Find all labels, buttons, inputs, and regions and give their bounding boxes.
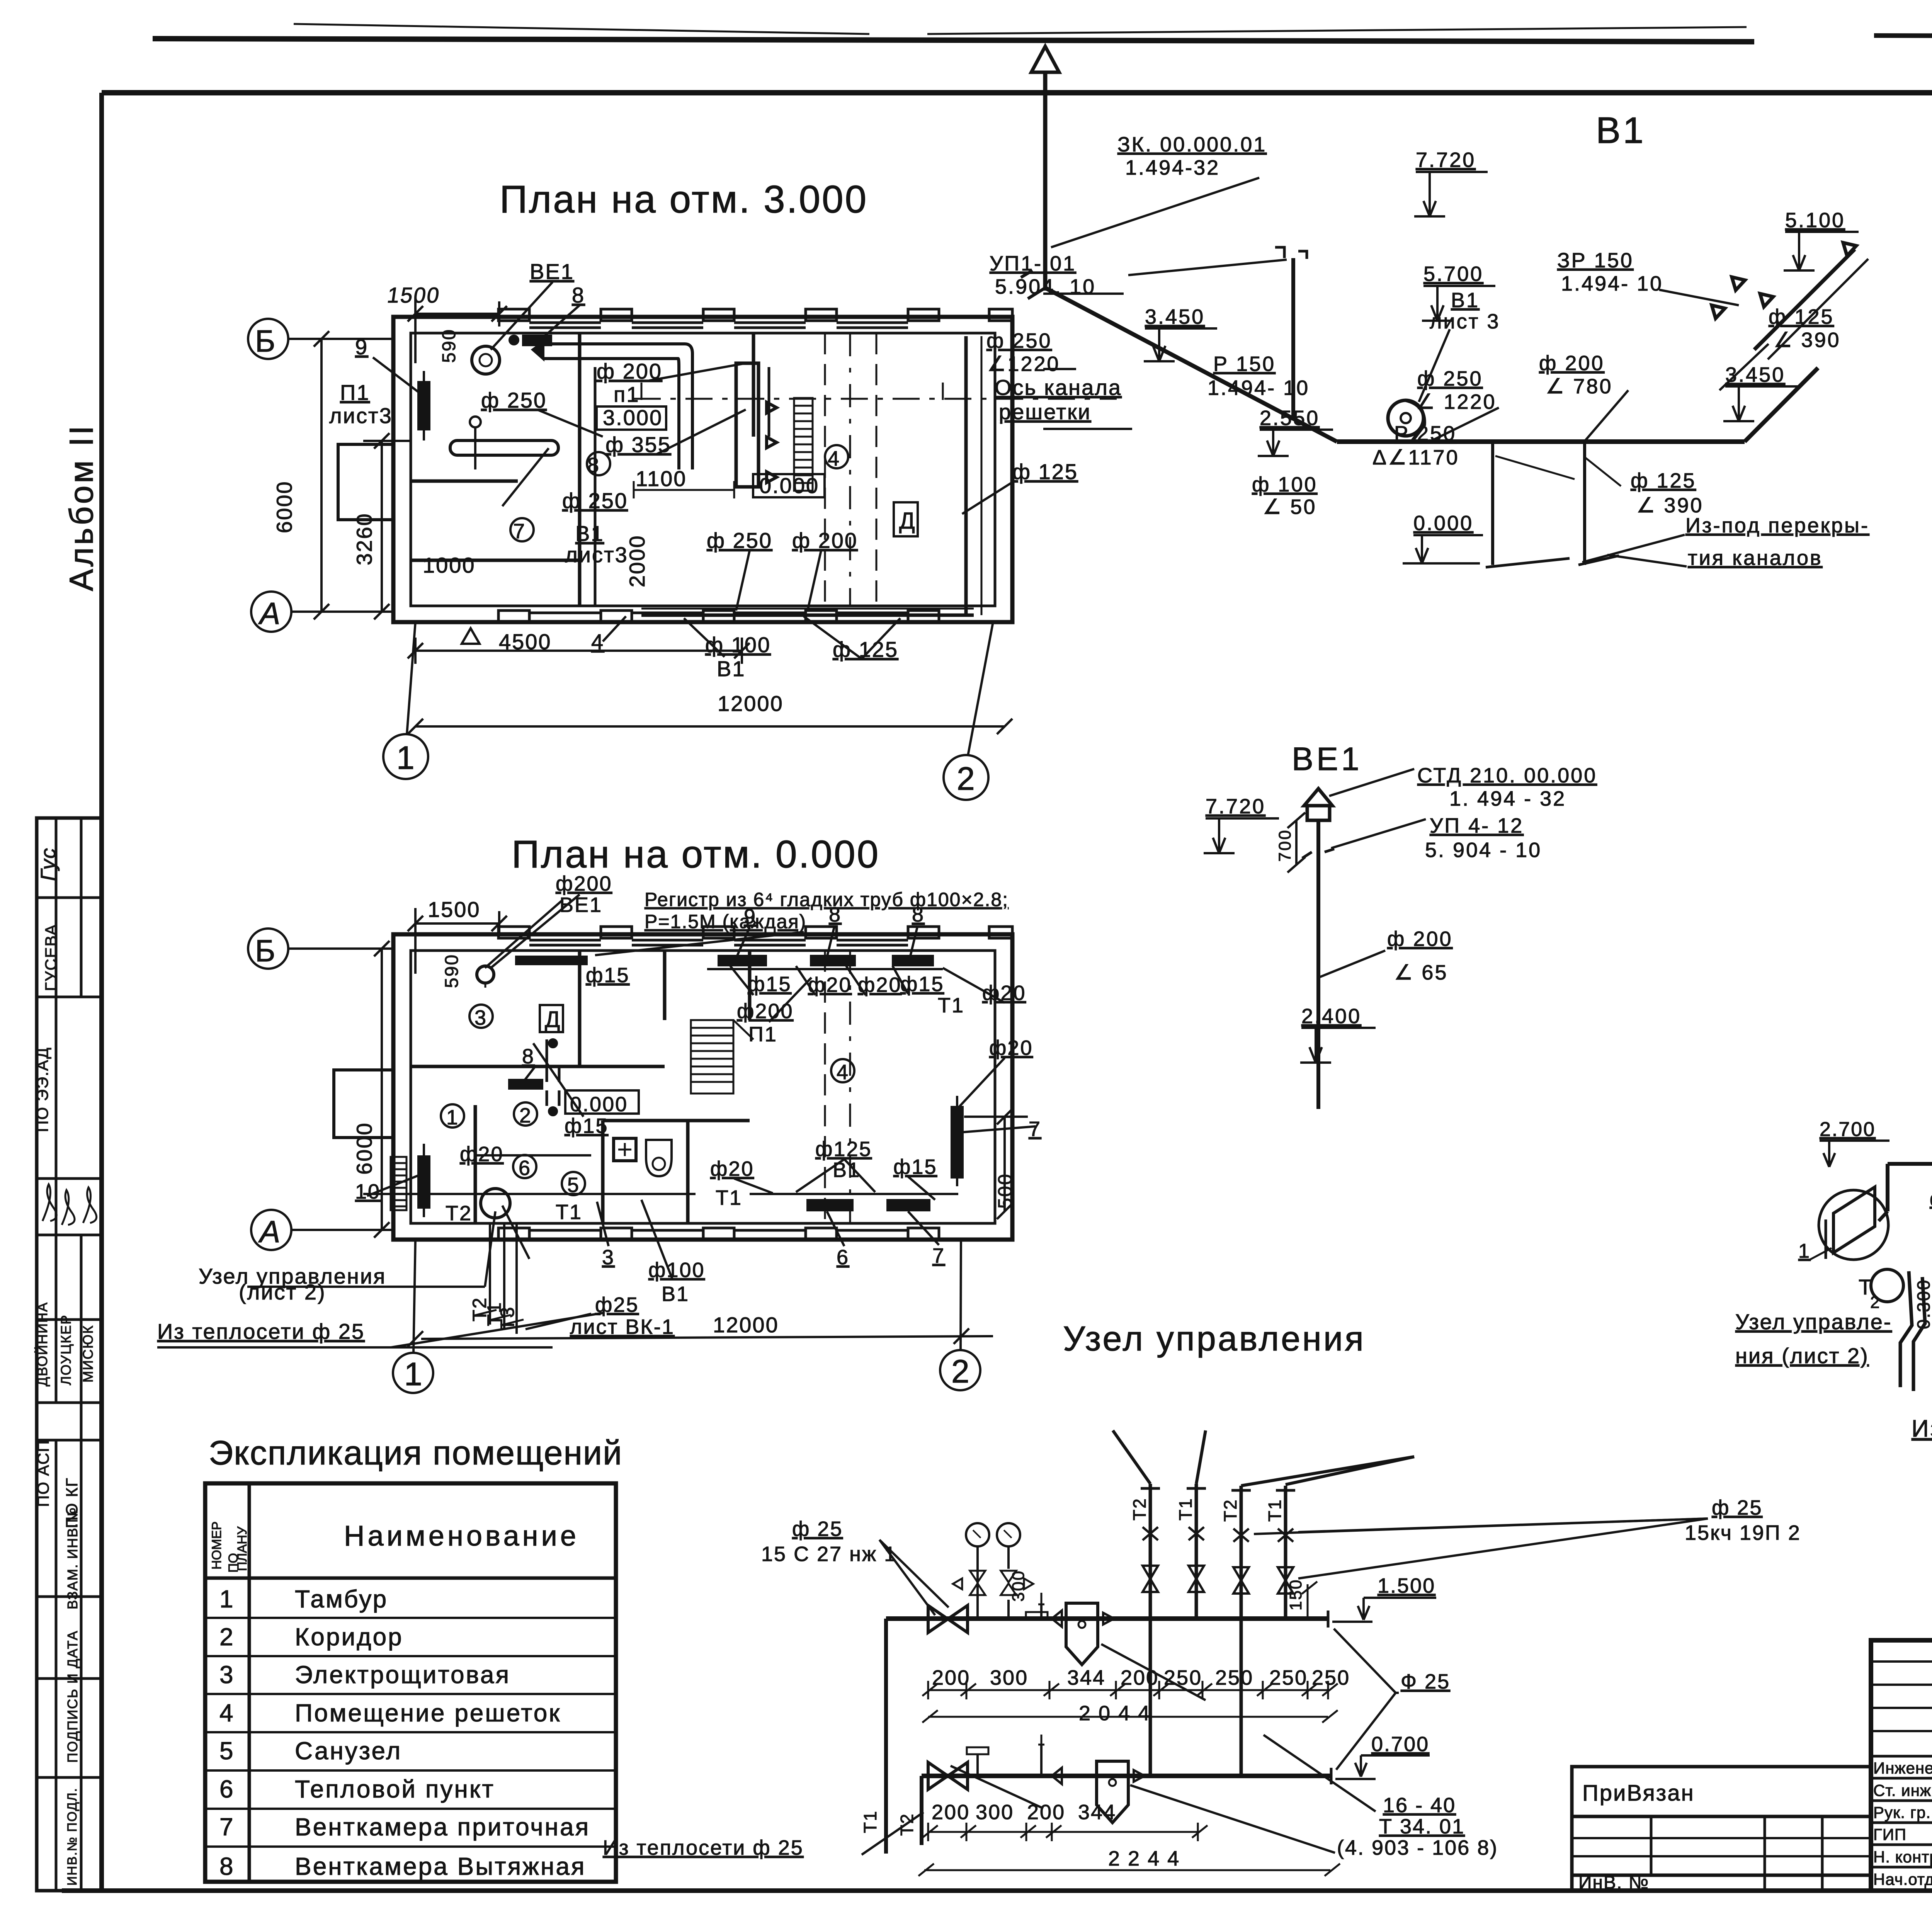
labels [603, 1496, 1801, 1870]
connecting risers between pipes [1149, 1619, 1152, 1776]
svg-text:3.000: 3.000 [603, 405, 663, 430]
svg-text:П1: П1 [748, 1023, 777, 1046]
svg-text:ф 200: ф 200 [1387, 927, 1453, 951]
svg-text:8: 8 [219, 1852, 235, 1880]
svg-text:СТД 210. 00.000: СТД 210. 00.000 [1417, 764, 1597, 787]
B1 axonometric schematic [986, 46, 1869, 570]
grid B [248, 319, 288, 359]
svg-text:1.500: 1.500 [1378, 1574, 1435, 1597]
svg-text:(4. 903 - 106 8): (4. 903 - 106 8) [1337, 1836, 1498, 1859]
svg-text:3260: 3260 [352, 512, 376, 565]
BE1 schematic [1204, 741, 1597, 1109]
upper diagonal duct 3P150 [1754, 249, 1855, 350]
svg-text:ГУСЕВА: ГУСЕВА [42, 924, 60, 991]
Ф25 fan leaders [1334, 1629, 1396, 1693]
dim 4500 [415, 650, 742, 652]
svg-text:ф 250: ф 250 [1417, 367, 1483, 390]
dirt trap 2 [1097, 1761, 1128, 1823]
stairs [691, 1020, 753, 1094]
porch left [334, 1070, 393, 1138]
TITLE BLOCK [1572, 1640, 1932, 1932]
leaders to labels [1329, 769, 1414, 796]
axis 1 [407, 622, 415, 734]
svg-text:Из-под перекры-: Из-под перекры- [1685, 514, 1869, 537]
svg-text:ф15: ф15 [748, 973, 792, 996]
svg-text:ДВОЙНИНА: ДВОЙНИНА [34, 1302, 50, 1386]
svg-text:МИСЮК: МИСЮК [80, 1325, 96, 1383]
0.000 [1403, 535, 1483, 563]
labels [1798, 891, 1932, 1379]
svg-text:Рук. гр.: Рук. гр. [1873, 1803, 1931, 1821]
svg-text:2 0 4 4: 2 0 4 4 [1079, 1702, 1151, 1725]
svg-text:Ст. инж.: Ст. инж. [1873, 1781, 1932, 1799]
leaders [247, 895, 1036, 1329]
svg-text:3.450: 3.450 [1145, 305, 1205, 328]
right vertical radiator [952, 1107, 962, 1177]
deflector [1304, 789, 1332, 806]
svg-text:∠ 390: ∠ 390 [1774, 328, 1841, 352]
svg-text:200: 200 [1121, 1666, 1159, 1689]
torn top scan edge lines [153, 39, 1754, 42]
outer of main title block [1871, 1640, 1932, 1891]
3.450 left [1144, 328, 1217, 361]
svg-text:2: 2 [519, 1104, 531, 1127]
sheet frame bottom [62, 1888, 1932, 1893]
big circle 1 with slanted panel [1819, 1190, 1888, 1260]
svg-text:В1: В1 [662, 1282, 689, 1306]
outer wall [393, 317, 1012, 622]
svg-text:Т2: Т2 [1220, 1498, 1240, 1522]
svg-text:2000: 2000 [625, 534, 649, 587]
svg-text:344: 344 [1067, 1666, 1105, 1689]
svg-text:200: 200 [1027, 1801, 1065, 1824]
svg-text:Венткамера приточная: Венткамера приточная [295, 1813, 590, 1841]
7.720 [1416, 171, 1488, 173]
svg-text:ф 125: ф 125 [1012, 459, 1078, 484]
svg-text:1.494- 10: 1.494- 10 [1207, 376, 1310, 400]
vertical exhaust shaft [1043, 72, 1048, 288]
svg-text:Т2: Т2 [446, 1202, 472, 1225]
svg-text:ф15: ф15 [893, 1155, 937, 1179]
svg-text:Инженер: Инженер [1873, 1759, 1932, 1777]
svg-text:тия каналов: тия каналов [1688, 546, 1823, 570]
svg-text:15 С 27 нж 1: 15 С 27 нж 1 [761, 1543, 897, 1566]
svg-text:В1: В1 [1451, 289, 1480, 312]
heating pipes T1 horizontal [363, 1193, 696, 1195]
svg-text:Альбом II: Альбом II [63, 423, 100, 591]
svg-text:∠ 50: ∠ 50 [1263, 495, 1316, 519]
bottom duct run [641, 614, 974, 617]
svg-text:ВЕ1: ВЕ1 [1292, 741, 1362, 777]
dim 2244 [924, 1869, 1330, 1871]
internal walls [578, 951, 582, 1066]
dim 1500 top [415, 313, 499, 315]
riser tees [1141, 1487, 1160, 1490]
UP1 unit vertical pipe [1291, 258, 1295, 420]
svg-text:250: 250 [1312, 1666, 1350, 1689]
svg-text:4: 4 [837, 1061, 848, 1084]
svg-text:ф200: ф200 [737, 1000, 794, 1023]
axis 2 [968, 622, 993, 755]
svg-text:2.400: 2.400 [1301, 1005, 1361, 1028]
leaders [1808, 951, 1932, 1353]
700 vertical dim [1295, 820, 1298, 865]
svg-text:ф 200: ф 200 [1539, 352, 1605, 375]
flow triangles [1732, 277, 1745, 290]
svg-text:7: 7 [1029, 1117, 1041, 1141]
signatures band [43, 1184, 97, 1225]
boxes [441, 1005, 854, 1195]
svg-text:ф200: ф200 [556, 872, 612, 895]
svg-text:8: 8 [829, 903, 842, 926]
svg-text:лист3: лист3 [329, 403, 393, 428]
radiator bar room2 [510, 1080, 542, 1088]
svg-text:ф 250: ф 250 [481, 388, 547, 412]
svg-text:1: 1 [446, 1106, 458, 1129]
svg-text:Т2: Т2 [1129, 1497, 1150, 1520]
big vertical duct f355 [736, 363, 759, 487]
svg-text:4: 4 [219, 1699, 235, 1727]
dirt trap 1 [1066, 1603, 1098, 1665]
svg-text:5: 5 [567, 1173, 579, 1197]
svg-text:Т 34. 01: Т 34. 01 [1379, 1815, 1465, 1838]
callouts [355, 872, 1041, 1338]
svg-text:250: 250 [1269, 1666, 1308, 1689]
svg-text:Т2: Т2 [897, 1813, 917, 1836]
svg-text:7: 7 [219, 1813, 235, 1841]
svg-text:∠1220: ∠1220 [987, 352, 1060, 376]
svg-text:8: 8 [912, 903, 925, 926]
riser crosses [1143, 1527, 1158, 1540]
svg-text:6: 6 [837, 1246, 849, 1269]
svg-text:Р 150: Р 150 [1213, 352, 1276, 376]
svg-text:лист3: лист3 [565, 543, 628, 567]
svg-text:2: 2 [219, 1623, 235, 1651]
drop lines to basement [1491, 442, 1494, 565]
svg-text:Нач.отд.: Нач.отд. [1873, 1870, 1932, 1888]
svg-text:ф 125: ф 125 [1631, 469, 1696, 492]
svg-text:ПЛАНУ: ПЛАНУ [235, 1526, 250, 1571]
grill hatch [794, 398, 813, 491]
svg-text:1: 1 [396, 740, 415, 776]
2.400 [1300, 1028, 1376, 1063]
svg-text:12000: 12000 [713, 1313, 779, 1337]
svg-text:Из теплосети ф 25: Из теплосети ф 25 [157, 1319, 365, 1344]
dimension labels [272, 283, 784, 716]
svg-text:7: 7 [513, 520, 525, 543]
svg-text:4500: 4500 [499, 629, 552, 654]
internal walls [578, 333, 582, 606]
vertical dim 6000 [381, 949, 383, 1230]
svg-text:План на отм. 3.000: План на отм. 3.000 [500, 178, 868, 221]
four risers [1150, 1484, 1286, 1619]
svg-text:ПриВязан: ПриВязан [1582, 1781, 1695, 1806]
svg-text:2 2 4 4: 2 2 4 4 [1108, 1847, 1180, 1870]
dashed axis in room 4 [849, 951, 851, 1223]
svg-text:ф125: ф125 [815, 1138, 872, 1161]
main horizontal run [1337, 439, 1745, 444]
svg-text:Т1: Т1 [938, 994, 964, 1017]
svg-text:8: 8 [572, 283, 585, 307]
svg-text:ф 125: ф 125 [1769, 305, 1834, 328]
svg-text:590: 590 [439, 328, 459, 363]
svg-text:5.100: 5.100 [1785, 209, 1845, 232]
svg-text:6000: 6000 [352, 1122, 376, 1175]
svg-text:2: 2 [951, 1353, 969, 1389]
150 dim right [1307, 1584, 1309, 1619]
svg-text:200: 200 [932, 1801, 970, 1824]
svg-text:ИНВ.№ ПОДЛ.: ИНВ.№ ПОДЛ. [65, 1787, 80, 1886]
svg-text:Санузел: Санузел [295, 1737, 402, 1765]
svg-text:9: 9 [355, 335, 368, 359]
boxes around level marks [373, 282, 1012, 659]
svg-text:Узел управле-: Узел управле- [1735, 1310, 1892, 1334]
svg-text:ф 25: ф 25 [1712, 1496, 1763, 1519]
svg-text:300: 300 [1009, 1570, 1028, 1602]
dashed axis lines inside right room [849, 333, 851, 606]
svg-text:∠ 390: ∠ 390 [1636, 494, 1704, 517]
svg-text:ф 100: ф 100 [1252, 473, 1318, 496]
PLAN 3.000 [248, 178, 1122, 800]
svg-text:ф 20: ф 20 [1930, 1188, 1932, 1210]
f20 pipe corner room6 [475, 1113, 591, 1155]
entry hatch [391, 1157, 406, 1210]
grid circles and axes [248, 908, 1028, 1393]
svg-text:Из теплосети: Из теплосети [1912, 1415, 1932, 1442]
dim 12000 [415, 725, 1005, 728]
svg-text:НОМЕР: НОМЕР [209, 1521, 224, 1570]
svg-text:А: А [258, 1214, 280, 1249]
svg-text:1: 1 [219, 1585, 235, 1613]
svg-text:Δ∠1170: Δ∠1170 [1372, 446, 1459, 469]
svg-text:Венткамера Вытяжная: Венткамера Вытяжная [295, 1852, 586, 1880]
svg-text:ф 250: ф 250 [707, 528, 772, 553]
svg-text:А: А [258, 596, 280, 631]
radiator bar at left wall [419, 383, 429, 429]
svg-text:УП1- 01: УП1- 01 [990, 252, 1076, 275]
svg-text:∠ 780: ∠ 780 [1546, 375, 1613, 398]
svg-text:Д: Д [545, 1007, 560, 1032]
svg-text:ЗР 150: ЗР 150 [1557, 249, 1634, 272]
svg-text:6000: 6000 [272, 480, 296, 533]
rise at right [1745, 368, 1818, 442]
small black duct element top [524, 336, 551, 345]
svg-text:5: 5 [219, 1737, 235, 1765]
svg-text:9: 9 [744, 905, 757, 928]
leaders [1051, 178, 1259, 247]
svg-text:Тепловой пункт: Тепловой пункт [295, 1775, 495, 1803]
svg-text:Д: Д [899, 508, 915, 534]
svg-text:1.494- 10: 1.494- 10 [1561, 272, 1663, 295]
dim row 1 [928, 1689, 1328, 1691]
dim 500 right [1003, 1117, 1006, 1211]
svg-text:3: 3 [602, 1246, 615, 1269]
leaders [879, 1540, 935, 1615]
svg-text:∠ 65: ∠ 65 [1394, 961, 1448, 984]
pilasters top [498, 927, 1012, 1240]
svg-text:ГИП: ГИП [1873, 1825, 1906, 1844]
svg-text:7.720: 7.720 [1206, 795, 1265, 818]
flow triangles left of grill [767, 402, 777, 413]
svg-text:ф20: ф20 [710, 1157, 754, 1180]
vertical dim 6000 [320, 339, 323, 612]
svg-text:200: 200 [932, 1666, 970, 1689]
svg-text:8: 8 [522, 1045, 535, 1068]
T-risers below building [489, 1223, 491, 1325]
svg-text:ф20: ф20 [460, 1143, 504, 1166]
svg-text:Т1: Т1 [556, 1201, 582, 1224]
svg-text:ф 200: ф 200 [792, 528, 858, 553]
HEATING SYSTEM [1735, 800, 1932, 1463]
svg-text:8: 8 [587, 454, 599, 477]
outer wall [393, 934, 1012, 1240]
leader from note to register [485, 900, 804, 968]
pilasters bottom [498, 611, 529, 622]
svg-text:Коридор: Коридор [295, 1623, 403, 1651]
svg-text:0.300: 0.300 [1913, 1279, 1932, 1329]
svg-text:∠ 1220: ∠ 1220 [1416, 390, 1497, 413]
dashed duct room1 [547, 1066, 559, 1113]
svg-text:ф 25: ф 25 [792, 1517, 843, 1541]
7.720 [1204, 818, 1279, 853]
svg-text:Ф 25: Ф 25 [1401, 1670, 1450, 1693]
svg-text:(лист 2): (лист 2) [239, 1280, 326, 1304]
check valve [1052, 1611, 1062, 1627]
level arrows & dims [1043, 172, 1859, 563]
svg-text:3.450: 3.450 [1725, 363, 1785, 386]
svg-text:3: 3 [474, 1006, 486, 1029]
top pipe [886, 1616, 1328, 1621]
svg-text:Р 250: Р 250 [1394, 422, 1456, 445]
svg-text:300: 300 [976, 1801, 1014, 1824]
CONTROL UNIT (Узел управления) [603, 1320, 1801, 1876]
svg-text:Экспликация помещений: Экспликация помещений [209, 1434, 622, 1472]
svg-text:ПОДПИСЬ И ДАТА: ПОДПИСЬ И ДАТА [65, 1630, 80, 1763]
svg-text:ф15: ф15 [586, 964, 630, 987]
porch left plan1 [338, 444, 393, 520]
dim row 2 (bottom) [928, 1831, 1198, 1833]
small rows upper left [1871, 1662, 1932, 1731]
level marks / arrows [1820, 914, 1932, 1395]
svg-text:ф15: ф15 [565, 1114, 609, 1138]
leader lines [491, 282, 553, 350]
svg-text:2.550: 2.550 [1260, 406, 1320, 430]
fan snail [1388, 400, 1423, 436]
LEFT MARGIN STAMP COLUMN [37, 818, 101, 1891]
svg-text:лист ВК-1: лист ВК-1 [570, 1315, 675, 1338]
svg-text:ЗК. 00.000.01: ЗК. 00.000.01 [1117, 133, 1267, 156]
svg-text:решетки: решетки [999, 400, 1091, 424]
svg-text:ф 250: ф 250 [986, 329, 1052, 352]
0.700 level [1355, 1755, 1430, 1777]
dim row 2044 [928, 1716, 1328, 1718]
svg-text:2: 2 [1870, 1293, 1881, 1312]
svg-text:590: 590 [442, 954, 462, 988]
deflector chimney [1031, 46, 1059, 72]
dim 1500 top [415, 922, 499, 925]
svg-text:300: 300 [990, 1666, 1028, 1689]
T-circle riser [481, 1189, 510, 1218]
svg-text:Т1: Т1 [1265, 1498, 1285, 1522]
fan circle top-left room [472, 346, 500, 374]
svg-text:п1: п1 [614, 382, 639, 406]
bottom radiators [808, 1201, 852, 1210]
svg-text:1500: 1500 [428, 897, 481, 922]
svg-text:1100: 1100 [636, 466, 687, 491]
svg-text:Узел управления: Узел управления [1063, 1320, 1366, 1358]
channel axis line [634, 398, 1117, 400]
svg-text:Регистр из 6⁴ гладких труб ф10: Регистр из 6⁴ гладких труб ф100×2.8; [645, 889, 1009, 910]
svg-text:ф20: ф20 [989, 1036, 1033, 1060]
labels [986, 133, 1869, 570]
1.500 level [1358, 1598, 1436, 1620]
svg-text:2.700: 2.700 [1820, 1118, 1876, 1141]
grid circles and axes [248, 298, 1012, 800]
svg-text:7.720: 7.720 [1416, 148, 1476, 172]
svg-text:500: 500 [994, 1173, 1016, 1209]
svg-text:лист 3: лист 3 [1430, 310, 1500, 333]
svg-text:Из теплосети ф 25: Из теплосети ф 25 [603, 1836, 804, 1859]
svg-text:4: 4 [828, 447, 839, 470]
svg-text:Т1: Т1 [860, 1810, 880, 1833]
svg-text:5.904. 10: 5.904. 10 [995, 275, 1096, 298]
svg-text:ВЗАМ. ИНВ.№: ВЗАМ. ИНВ.№ [65, 1507, 80, 1609]
5.700 [1422, 286, 1495, 321]
svg-text:ВЕ1: ВЕ1 [530, 259, 574, 284]
5.100 [1784, 232, 1859, 270]
svg-text:344: 344 [1078, 1801, 1116, 1824]
dim inside 1100 [634, 489, 734, 491]
sheet frame top [102, 90, 1932, 95]
svg-text:7: 7 [932, 1244, 945, 1267]
svg-text:12000: 12000 [718, 691, 784, 716]
svg-text:2: 2 [957, 760, 975, 797]
svg-text:3: 3 [219, 1661, 235, 1689]
svg-text:1: 1 [1798, 1240, 1811, 1262]
svg-text:ЛОУЦКЕР: ЛОУЦКЕР [58, 1315, 74, 1385]
svg-text:1000: 1000 [423, 553, 476, 577]
pressure gauge cocks [966, 1523, 989, 1546]
sheet frame left [99, 93, 104, 1891]
svg-text:ИнВ. №: ИнВ. № [1578, 1872, 1649, 1893]
svg-text:В1: В1 [717, 656, 746, 681]
svg-text:250: 250 [1215, 1666, 1253, 1689]
callout labels [329, 259, 1122, 681]
thermometer [1040, 1604, 1043, 1619]
svg-text:4: 4 [591, 629, 604, 654]
2.550 [1258, 430, 1333, 456]
svg-text:5. 904 - 10: 5. 904 - 10 [1425, 838, 1542, 862]
uzel upravlenia callout [247, 1286, 485, 1288]
svg-text:Тамбур: Тамбур [295, 1585, 388, 1613]
bottom pipe [922, 1774, 1331, 1778]
left valve bowtie [928, 1605, 968, 1633]
Привязан box [1572, 1767, 1871, 1816]
svg-text:0.700: 0.700 [1371, 1733, 1429, 1756]
svg-text:ф 125: ф 125 [833, 637, 898, 662]
ROOM TABLE [205, 1434, 622, 1882]
svg-text:6: 6 [219, 1775, 235, 1803]
slope duct down to main run [1045, 288, 1337, 442]
3.450 [1723, 386, 1799, 421]
svg-text:700: 700 [1276, 829, 1294, 862]
pilasters top [498, 309, 1012, 622]
signature rows [1871, 1756, 1932, 1867]
svg-text:ПО ЭЭ.АД: ПО ЭЭ.АД [33, 1047, 51, 1132]
svg-text:Наименование: Наименование [344, 1520, 579, 1552]
svg-text:Н. контр.: Н. контр. [1873, 1848, 1932, 1866]
supply duct L-shape [543, 357, 678, 360]
